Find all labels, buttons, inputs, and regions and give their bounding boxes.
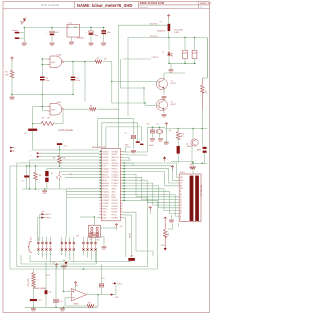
svg-text:G: G <box>73 254 74 256</box>
wire <box>136 250 153 252</box>
wire <box>72 62 74 77</box>
ground <box>31 309 36 310</box>
svg-text:C9: C9 <box>22 181 24 183</box>
wire net AIN0 <box>98 119 134 149</box>
junction <box>42 94 43 95</box>
pin row 24 IC4 <box>100 216 123 219</box>
svg-text:G: G <box>38 254 39 256</box>
pin row 23 IC4 <box>100 213 123 216</box>
wire <box>97 108 119 110</box>
header pin 11a <box>90 242 92 244</box>
VCC <box>164 217 167 221</box>
svg-text:PD3/INT1: PD3/INT1 <box>102 160 109 162</box>
svg-text:PB3/MOSI: PB3/MOSI <box>102 183 109 185</box>
capacitor C12 <box>54 299 59 300</box>
wire <box>192 129 194 140</box>
wire <box>38 217 42 219</box>
wire <box>23 28 25 43</box>
header pin stub <box>91 244 93 248</box>
svg-text:LCD1: LCD1 <box>180 172 185 174</box>
junction <box>59 149 60 150</box>
wire from header <box>65 251 67 258</box>
wire <box>177 154 179 164</box>
wire <box>32 131 34 150</box>
wire <box>149 211 151 215</box>
wire <box>67 194 100 196</box>
header top stub <box>69 237 71 242</box>
header top stub <box>73 237 75 242</box>
svg-text:RS: RS <box>180 186 182 188</box>
pin LSP5 <box>10 147 13 149</box>
wire <box>194 59 196 64</box>
pin row 18 IC4 <box>100 199 123 202</box>
svg-text:PC5/SCL: PC5/SCL <box>112 186 118 188</box>
junction <box>111 81 112 82</box>
svg-text:NAME: lclear_meter#5_SHD: NAME: lclear_meter#5_SHD <box>77 3 132 8</box>
wire <box>206 38 208 79</box>
junction <box>51 27 52 28</box>
header pin stub <box>95 244 97 248</box>
junction <box>152 127 153 128</box>
wire <box>41 152 100 154</box>
VCC <box>55 264 58 268</box>
capacitor C13 <box>128 258 135 261</box>
wire <box>192 162 207 164</box>
header pin 8a <box>73 242 75 244</box>
header pin 10a <box>86 242 88 244</box>
wire <box>42 110 47 112</box>
junction <box>59 165 60 166</box>
svg-text:GND: GND <box>63 260 66 262</box>
junction <box>124 165 125 166</box>
wire <box>164 72 185 74</box>
VCC <box>115 224 118 228</box>
junction <box>11 94 12 95</box>
junction <box>168 37 169 38</box>
pin row 5 IC4 <box>100 162 123 165</box>
header pin 3a <box>45 242 47 244</box>
junction <box>84 61 85 62</box>
wire <box>64 61 96 63</box>
svg-text:100n: 100n <box>76 80 80 82</box>
VCC +5V <box>165 123 168 127</box>
jumper JP1 <box>90 233 99 237</box>
svg-text:IN: IN <box>68 27 70 29</box>
wire <box>191 146 193 163</box>
pin K1 <box>163 157 166 162</box>
wire <box>42 58 47 60</box>
wire <box>101 264 103 284</box>
junction <box>144 102 145 103</box>
svg-text:BC547: BC547 <box>171 104 176 106</box>
wire <box>110 294 116 296</box>
resistor R2 <box>95 60 102 63</box>
VCC +9V <box>167 15 170 19</box>
microcontroller IC4 ATMEGA8 <box>102 149 121 221</box>
LCD display LCD1 <box>179 174 201 222</box>
wire <box>131 260 133 263</box>
junction <box>124 168 125 169</box>
header pin stub <box>73 244 75 248</box>
wire <box>41 156 100 158</box>
wire net AIN1 <box>102 123 138 149</box>
header pin 6b <box>65 248 67 250</box>
junction <box>168 63 169 64</box>
resistor R10 <box>176 132 180 140</box>
NAND gate IC2A <box>48 56 64 68</box>
wire <box>143 88 145 103</box>
wire from header <box>83 251 85 255</box>
capacitor C11 <box>45 290 48 294</box>
wire <box>33 123 41 125</box>
svg-text:T4: T4 <box>160 22 162 24</box>
resistor R14b <box>201 85 205 93</box>
wire <box>169 62 196 64</box>
junction <box>143 87 144 88</box>
wire <box>159 127 161 130</box>
junction <box>35 165 36 166</box>
svg-text:4093: 4093 <box>51 62 55 64</box>
wire <box>123 163 134 166</box>
wire <box>177 129 179 132</box>
ground <box>89 43 94 44</box>
junction <box>192 162 193 163</box>
wire <box>103 237 105 246</box>
svg-text:RESET: RESET <box>102 209 107 211</box>
wire <box>16 163 18 267</box>
svg-text:PD0/RXD: PD0/RXD <box>112 200 118 202</box>
wire <box>33 149 100 151</box>
svg-text:IC3: IC3 <box>75 285 78 287</box>
svg-text:JP2: JP2 <box>76 235 79 237</box>
wire <box>25 306 98 308</box>
junction <box>63 307 64 308</box>
pin row 21 IC4 <box>100 209 123 211</box>
svg-text:LSP3: LSP3 <box>161 245 165 247</box>
svg-text:E: E <box>180 191 181 193</box>
svg-text:BC547: BC547 <box>171 83 176 85</box>
svg-text:R15: R15 <box>166 233 168 236</box>
svg-text:C8: C8 <box>24 133 26 135</box>
wire <box>202 77 207 79</box>
ground <box>10 97 15 98</box>
wire <box>59 162 61 167</box>
wire <box>62 174 100 176</box>
capacitor CE1 <box>183 50 188 58</box>
wire <box>159 133 161 138</box>
wire <box>26 178 28 190</box>
header pin 5b <box>61 248 63 250</box>
header pin stub <box>45 244 47 248</box>
wire <box>101 287 103 295</box>
diode D1 <box>168 24 171 31</box>
junction <box>202 163 203 164</box>
svg-text:Power: Power <box>12 30 18 32</box>
pin row 8 IC4 <box>100 170 123 173</box>
svg-text:PB5/SCK: PB5/SCK <box>112 169 118 171</box>
wire <box>41 60 43 77</box>
wire <box>9 166 11 269</box>
wire <box>20 255 22 264</box>
wire <box>66 189 68 237</box>
wire <box>204 153 206 163</box>
transistor T1 <box>156 78 167 89</box>
wire <box>42 64 47 66</box>
wire <box>123 157 130 160</box>
wire <box>62 111 64 124</box>
header pin 2b <box>41 248 43 250</box>
wire <box>194 38 196 51</box>
ground <box>69 42 74 43</box>
svg-text:D7: D7 <box>180 213 182 215</box>
ground <box>158 139 163 140</box>
wire <box>170 63 172 70</box>
wire <box>35 180 37 189</box>
wire MCU row 13 to LCD pin 11 <box>123 186 180 208</box>
wire <box>171 215 173 219</box>
svg-text:Q1: Q1 <box>157 124 159 126</box>
wire <box>112 81 159 83</box>
wire <box>93 217 95 225</box>
svg-text:PD4/XCK: PD4/XCK <box>102 163 108 165</box>
wire <box>65 297 71 299</box>
wire <box>163 73 165 80</box>
pin row 1 IC4 <box>100 150 123 153</box>
wire MCU row 17 down <box>123 200 158 269</box>
wire <box>60 171 100 173</box>
junction <box>72 94 73 95</box>
pin row 4 IC4 <box>100 160 123 162</box>
header pin stub <box>69 244 71 248</box>
wire <box>71 37 73 41</box>
pin LSP1 <box>42 213 45 215</box>
svg-text:LSP2: LSP2 <box>46 218 51 220</box>
header pin stub <box>87 244 89 248</box>
wire <box>165 128 207 130</box>
header pin stub <box>61 244 63 248</box>
capacitor C14 <box>99 284 104 285</box>
header pin stub <box>83 244 85 248</box>
wire <box>163 89 165 96</box>
svg-text:ID de la Ronda: ID de la Ronda <box>41 3 59 7</box>
junction <box>42 106 43 107</box>
wire <box>123 58 152 60</box>
wire <box>95 295 98 306</box>
svg-text:4K7: 4K7 <box>181 136 184 138</box>
wire <box>84 101 86 103</box>
svg-text:PD2/INT0: PD2/INT0 <box>112 206 119 208</box>
wire <box>178 224 180 228</box>
junction <box>103 27 104 28</box>
svg-text:G: G <box>65 254 66 256</box>
wire bus <box>21 263 97 265</box>
wire <box>40 213 42 215</box>
header pin 6a <box>65 242 67 244</box>
wire <box>54 123 63 125</box>
junction <box>72 61 73 62</box>
wire MCU row 5 to LCD pin 1 <box>123 163 180 178</box>
ground <box>169 70 174 71</box>
wire <box>46 169 48 171</box>
svg-text:R4: R4 <box>90 106 92 108</box>
junction <box>63 291 64 292</box>
wire <box>103 34 105 42</box>
pin row 17 IC4 <box>100 196 123 199</box>
junction <box>97 294 98 295</box>
svg-text:PC5/SCL: PC5/SCL <box>102 206 108 208</box>
capacitor C8 <box>28 129 37 131</box>
wire <box>59 181 61 190</box>
junction <box>29 188 30 189</box>
svg-text:PB2/SS: PB2/SS <box>102 180 107 182</box>
wire <box>33 106 48 108</box>
VCC <box>171 166 174 170</box>
svg-text:3MP3: 3MP3 <box>197 150 201 152</box>
pin LSP3 <box>164 248 167 251</box>
header pin 4a <box>49 242 51 244</box>
svg-text:PB0/ICP: PB0/ICP <box>102 174 108 176</box>
wire from header <box>41 251 43 258</box>
svg-text:R17: R17 <box>88 303 91 305</box>
junction <box>94 216 95 217</box>
ground <box>62 266 67 267</box>
header top stub <box>87 237 89 242</box>
capacitor C18 <box>140 144 143 145</box>
wire <box>35 166 37 172</box>
wire <box>32 124 34 129</box>
resistor R17 <box>87 304 94 307</box>
svg-text:100n: 100n <box>107 32 111 34</box>
wire <box>75 286 77 290</box>
junction <box>26 165 27 166</box>
ground <box>60 308 65 309</box>
wire <box>12 94 42 96</box>
wire <box>172 170 174 171</box>
svg-text:C11: C11 <box>48 292 51 294</box>
wire net AREF <box>106 127 142 149</box>
svg-text:G: G <box>46 254 47 256</box>
junction <box>90 27 91 28</box>
wire <box>30 159 100 161</box>
wire MCU row 16 down <box>123 197 148 266</box>
wire <box>72 81 74 95</box>
junction <box>44 188 45 189</box>
header top stub <box>61 237 63 242</box>
svg-text:D5: D5 <box>180 208 182 210</box>
wire <box>11 78 13 96</box>
svg-text:PD0/RXD: PD0/RXD <box>102 151 108 153</box>
svg-text:G: G <box>69 254 70 256</box>
wire <box>64 291 72 293</box>
ground <box>164 142 169 143</box>
junction <box>192 128 193 129</box>
wire <box>84 62 86 102</box>
header pin 8b <box>73 248 75 250</box>
wire <box>112 102 145 104</box>
inductor L1 <box>32 273 35 288</box>
svg-text:PD1/TXD: PD1/TXD <box>112 203 118 205</box>
header pin 7a <box>69 242 71 244</box>
svg-text:T5: T5 <box>162 52 164 54</box>
wire <box>192 169 194 174</box>
wire <box>116 228 118 231</box>
capacitor C19 <box>45 171 48 176</box>
junction <box>124 174 125 175</box>
capacitor C1 <box>46 31 55 35</box>
wire <box>101 227 117 229</box>
header pin 12a <box>94 242 96 244</box>
resistor R15b <box>163 230 167 238</box>
wire <box>67 191 100 193</box>
capacitor C7 <box>131 135 135 136</box>
ground <box>102 247 107 248</box>
wire <box>145 105 159 107</box>
svg-text:KEYPAD_LCD: KEYPAD_LCD <box>199 185 202 197</box>
resistor R4 <box>90 108 97 111</box>
VCC <box>11 57 14 61</box>
wire <box>118 109 120 148</box>
capacitor C6 <box>57 143 62 145</box>
connector SV1 bracket <box>28 241 32 252</box>
wire <box>63 267 65 292</box>
wire MCU row 16 to LCD pin 14 <box>123 195 180 217</box>
svg-text:R11 (PU): R11 (PU) <box>150 24 158 26</box>
svg-text:PD3/INT1: PD3/INT1 <box>112 209 119 211</box>
svg-text:S1: S1 <box>25 18 27 20</box>
svg-text:G: G <box>61 254 62 256</box>
ground <box>150 139 155 140</box>
wire <box>80 216 94 218</box>
header pin 2a <box>41 242 43 244</box>
junction <box>124 162 125 163</box>
svg-text:L1: L1 <box>37 280 39 282</box>
wire XTAL1 <box>123 147 132 152</box>
pin MOSI <box>37 152 40 154</box>
ground <box>101 43 106 44</box>
wire <box>148 126 166 128</box>
wire MCU row 9 to LCD pin 7 <box>123 175 180 197</box>
svg-text:SHEET 1/1: SHEET 1/1 <box>200 3 212 5</box>
op-amp IC3 <box>71 288 86 301</box>
header pin 4b <box>49 248 51 250</box>
junction <box>184 37 185 38</box>
wire <box>55 264 57 299</box>
border frame <box>3 2 210 313</box>
svg-text:LSP: LSP <box>41 211 44 213</box>
svg-text:PD4/XCK: PD4/XCK <box>112 212 118 214</box>
wire <box>184 38 186 51</box>
capacitor C2 <box>85 31 93 35</box>
junction <box>194 63 195 64</box>
ground <box>162 97 167 98</box>
svg-text:D6: D6 <box>180 210 182 212</box>
svg-text:PB0/ICP: PB0/ICP <box>112 154 118 156</box>
wire <box>123 159 132 161</box>
svg-text:LM358: LM358 <box>73 303 79 305</box>
wire net PU2 <box>128 38 169 117</box>
resistor R1 <box>10 70 14 78</box>
wire <box>45 262 47 291</box>
pin row 6 IC4 <box>100 165 123 168</box>
junction <box>124 182 125 183</box>
svg-text:IC2A: IC2A <box>57 53 62 56</box>
header pin 11b <box>90 248 92 250</box>
pin row 15 IC4 <box>100 191 123 194</box>
connector X1 pin 1 <box>15 32 20 34</box>
wire <box>169 37 207 39</box>
junction <box>55 307 56 308</box>
svg-text:PB5/SCK: PB5/SCK <box>102 189 108 191</box>
